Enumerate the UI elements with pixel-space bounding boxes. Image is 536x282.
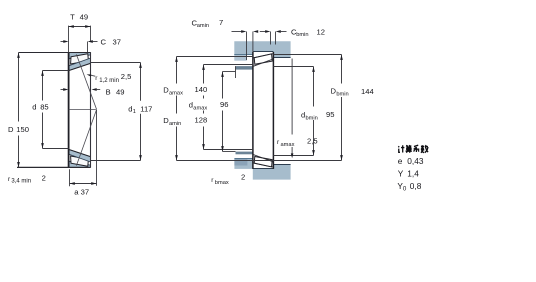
shaft bar bottom (grey) [236,152,253,155]
outside face right [90,52,92,167]
dimension D [18,53,20,122]
svg-text:140: 140 [195,85,208,94]
contact apex line bottom [76,110,96,166]
top face line + D top leader [19,52,91,54]
svg-text:0,43: 0,43 [407,156,424,166]
svg-text:r: r [95,75,98,82]
svg-text:37: 37 [81,187,89,196]
dimension a [69,169,71,186]
svg-text:B: B [106,88,111,97]
svg-text:128: 128 [195,116,208,125]
svg-text:144: 144 [361,87,374,96]
outer ring (cup) top section [69,53,90,59]
svg-text:85: 85 [40,102,48,111]
svg-text:12: 12 [317,27,325,36]
r1,2min label + leader [89,75,95,76]
char shu [421,145,428,153]
svg-text:amax: amax [169,90,183,96]
Damin dimension (L2) [204,64,253,66]
svg-text:3,4 min: 3,4 min [11,179,31,185]
char suan [406,145,412,153]
dimension C [61,41,65,43]
svg-text:d: d [128,104,132,113]
svg-text:bmin: bmin [336,91,348,97]
svg-text:37: 37 [113,37,121,46]
svg-text:0,8: 0,8 [410,181,422,191]
svg-text:49: 49 [80,12,88,21]
Dbmin dimension [273,54,341,56]
heading 计算系数 (drawn, CJK font unavailable) [398,145,428,153]
housing shoulder band bottom (blue) [253,165,291,180]
svg-text:bmin: bmin [296,32,308,38]
svg-text:1,4: 1,4 [407,168,419,178]
svg-text:0: 0 [403,185,407,192]
svg-text:C: C [101,37,107,46]
centre line [69,109,96,111]
housing bore column left (light blue) [234,55,247,61]
svg-text:1: 1 [133,109,136,115]
svg-text:117: 117 [140,104,152,113]
svg-text:150: 150 [16,125,29,134]
roller bottom middle [253,163,273,167]
svg-text:amin: amin [197,23,209,29]
svg-text:bmin: bmin [306,115,318,121]
inner ring (cone) bottom section [69,150,90,162]
Ca/Cb extension lines [246,32,248,61]
dimension B [61,89,65,91]
svg-text:2,5: 2,5 [307,137,318,146]
svg-text:Y: Y [398,168,404,178]
housing shoulder band top (blue) [234,41,290,57]
svg-text:d: d [32,102,36,111]
svg-text:amin: amin [169,121,181,127]
svg-text:D: D [8,125,14,134]
inner ring (cone) top section [69,58,90,70]
damax dimension (L3) [223,71,236,73]
roller top [71,54,89,64]
svg-text:T: T [70,12,75,21]
dimension d [43,70,69,72]
roller bottom [71,156,89,166]
dbmin dimension [273,66,313,68]
Damax dimension (L1) [177,56,253,58]
svg-text:2,5: 2,5 [121,72,132,81]
outer ring (cup) bottom section [69,161,90,167]
svg-text:95: 95 [326,110,334,119]
shaft shoulder block bottom (blue) [234,159,252,169]
svg-text:1,2 min: 1,2 min [99,78,119,84]
contact apex line top [76,54,96,109]
bearing box faces [252,52,254,169]
svg-text:2: 2 [42,173,46,182]
svg-text:7: 7 [219,18,223,27]
roller top middle [253,54,273,58]
shaft shoulder bar top (grey) [236,66,253,70]
bore face left (thick) [68,52,70,167]
Cb arrows [260,31,266,33]
svg-text:amax: amax [193,105,207,111]
svg-text:bmax: bmax [215,180,229,186]
bottom face line + D bottom leader [17,166,91,168]
svg-text:a: a [74,187,79,196]
apex extension down to a-dim [96,110,98,186]
char ji [398,145,404,152]
char xi [414,145,420,152]
dimension T [68,26,70,53]
svg-text:amax: amax [281,142,295,148]
Ca arrows [232,31,243,33]
dimension d1 [90,62,140,64]
svg-text:49: 49 [116,88,124,97]
shaft step top [235,66,237,78]
svg-text:e: e [398,156,403,166]
svg-text:2: 2 [241,173,245,182]
ramax pointer line [291,59,293,135]
svg-text:96: 96 [220,100,228,109]
